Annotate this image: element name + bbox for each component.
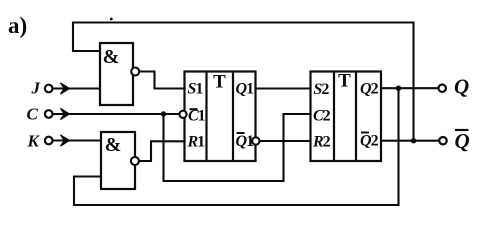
wire: K input to gate D2 [53,139,102,141]
wire: gate D2 output to R1 [140,141,185,161]
terminal Q output [439,85,446,92]
node junction on Q line [396,86,401,91]
wire: C input to C1bar bubble [53,113,180,115]
FF1 C1 input inversion bubble [179,111,186,118]
svg-text:&: & [105,134,122,156]
svg-text:C2: C2 [313,108,331,125]
svg-text:Q: Q [455,129,470,153]
svg-text:T: T [213,72,226,93]
svg-text:Q1: Q1 [236,81,255,98]
svg-text:K: K [27,132,41,151]
svg-text:C: C [27,105,39,124]
flip-flop FF1 box [185,72,256,162]
node junction on C line [161,111,166,116]
wire: gate D1 output to S1 [139,72,184,89]
node junction on Qbar line [411,138,416,143]
wire Q1 to S2 [256,87,311,89]
svg-text:Q: Q [454,75,469,99]
flip-flop FF2 box [311,72,382,162]
terminal C [45,110,53,118]
terminal J [45,85,53,93]
terminal K [45,137,53,145]
wire: J input to gate D1 [53,87,101,89]
svg-text:J: J [31,79,41,98]
NAND gate D1 box [100,43,133,105]
FF1 Q1bar output inversion bubble [252,137,259,144]
wire Q1bar bubble to R2 [259,140,310,142]
svg-text:&: & [103,46,120,68]
svg-text:Q2: Q2 [360,81,379,98]
wire Q2 to terminal Q [381,87,439,89]
gate D1 output inversion bubble [131,68,139,76]
gate D2 output inversion bubble [131,157,139,165]
terminal Qbar output [439,137,446,144]
svg-text:Q2: Q2 [360,133,379,150]
wire: bottom feedback from Q net to gate D2 input [74,88,399,205]
svg-text:S1: S1 [188,81,204,98]
speck above top wire [110,18,113,21]
NAND gate D2 box (lower) [101,132,135,189]
svg-text:R2: R2 [312,134,331,151]
wire Q2bar to terminal Qbar [381,140,439,142]
wire: top feedback from Qbar net to gate D1 input [73,23,414,141]
svg-text:R1: R1 [187,134,206,151]
wire C branch down under FF1 to C2 [164,114,311,181]
svg-text:a): a) [8,13,27,38]
svg-text:Q1: Q1 [236,133,255,150]
svg-text:T: T [338,71,351,92]
svg-text:S2: S2 [314,81,330,98]
